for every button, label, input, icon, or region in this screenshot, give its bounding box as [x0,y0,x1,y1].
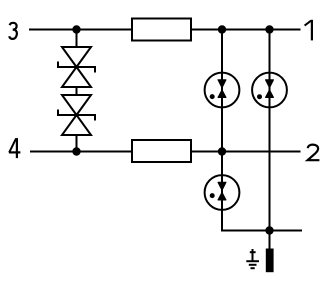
wire: bottom ground bus [221,230,302,232]
ground terminal block (filled bar) [266,249,274,273]
junction node: line 1 / arrester F2 column [265,25,273,33]
wire: line 3 from terminal 3 to resistor R1 [29,29,131,31]
wire: between TVS D1 and TVS D2 [76,87,78,95]
gas discharge tube F1 [205,73,240,108]
wire: TVS column from line 3 down to TVS D1 [76,30,78,49]
gas discharge tube F2 [252,73,287,108]
resistor R2 [132,140,191,162]
junction dot on line 3 at TVS column [72,25,80,33]
terminal label 4 [9,138,21,158]
TVS suppressor diode D1 (bidirectional) [58,47,95,87]
junction node: ground bus / F2 column [265,226,273,234]
terminal label 3 [9,23,17,39]
wire: line 2 from resistor R2 to terminal 2 [192,151,301,153]
ground (earth symbol) [246,249,259,268]
junction node: line 1 / arrester F1 column [218,25,226,33]
terminal label 2 [308,145,320,161]
resistor R1 [132,19,191,41]
junction dot on line 4 at TVS column [72,147,80,155]
wire: arrester F1 column from line 1 to line 2 [221,30,223,152]
wire: TVS column from TVS D2 down to line 4 [76,135,78,152]
TVS suppressor diode D2 (bidirectional) [58,95,95,135]
terminal label 1 [305,20,312,41]
wire: arrester F2 column from line 1 down to bottom ground line [269,30,271,231]
gas discharge tube F3 [205,175,240,210]
wire: arrester F3 column from line 2 down to bottom ground line [221,152,223,232]
wire: line 1 from resistor R1 to terminal 1 [192,29,301,31]
junction node: line 2 / arrester F1-F3 column [218,147,226,155]
wire: from ground bus junction down to ground terminal [269,231,271,250]
wire: line 4 from terminal 4 to resistor R2 [30,151,131,153]
